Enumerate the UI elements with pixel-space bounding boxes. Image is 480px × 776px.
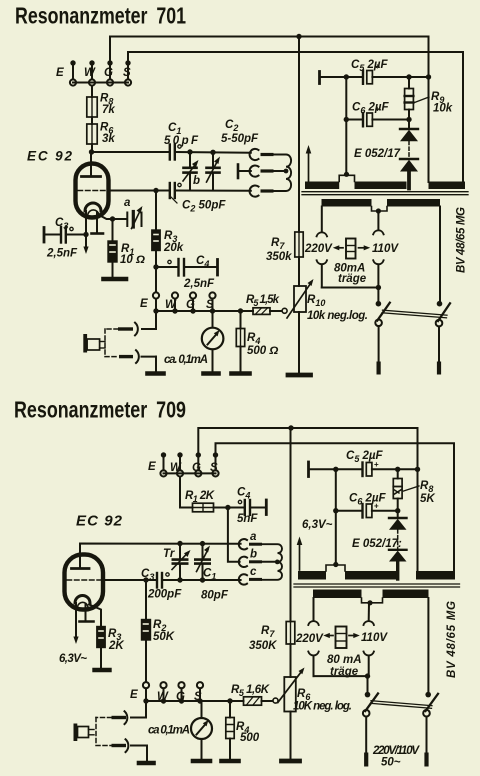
wire G to supply 709 (198, 428, 417, 453)
ground meter (204, 371, 219, 376)
headphone jack 709 (96, 701, 147, 761)
svg-text:50~: 50~ (381, 757, 401, 769)
resistor R4 (236, 311, 278, 371)
wire C5 to C6 (345, 77, 347, 174)
svg-text:Tr: Tr (163, 548, 175, 560)
wiper contact R10 (282, 308, 287, 313)
svg-text:G: G (104, 67, 113, 79)
node Tr bottom (177, 577, 182, 582)
coil winding (274, 155, 292, 192)
wire S to transformer (128, 52, 463, 182)
svg-text:G: G (192, 462, 201, 474)
tube cathode 709 (75, 596, 90, 604)
node R8 top (395, 467, 400, 472)
wire C5 to C6 709 (335, 469, 337, 564)
svg-text:W: W (84, 67, 96, 79)
wire output bus 709 (146, 700, 244, 702)
svg-text:E: E (130, 689, 138, 701)
input bar C5 709 (307, 462, 310, 477)
svg-text:80 mA: 80 mA (327, 654, 362, 666)
svg-text:2,5nF: 2,5nF (183, 278, 215, 290)
svg-text:E: E (140, 298, 148, 310)
svg-text:6,3V~: 6,3V~ (302, 519, 333, 531)
diode D1 E052/17 (400, 120, 418, 159)
wire selector common 709 (314, 675, 368, 677)
svg-text:a: a (250, 531, 257, 543)
capacitor C5 709 (346, 450, 418, 476)
node rectifier 709 (395, 508, 400, 513)
node B+ rail top 709 (288, 425, 293, 430)
wire C3 node to R2 (145, 580, 147, 620)
wire R8-R6 (91, 117, 93, 124)
output terminal G 709 (178, 682, 184, 688)
svg-text:C6 2µF: C6 2µF (352, 102, 390, 116)
resistor R7 709 (249, 622, 295, 653)
output terminal W 709 (160, 682, 166, 688)
output terminal G (190, 292, 196, 298)
svg-text:BV 48/65 MG: BV 48/65 MG (456, 207, 468, 273)
svg-text:5-50pF: 5-50pF (221, 133, 259, 145)
tube anode lead (90, 152, 92, 177)
svg-text:220V: 220V (304, 243, 333, 255)
resistor R5 (246, 294, 282, 314)
mains switch 701 (375, 301, 450, 375)
fuse 80mA (333, 239, 370, 286)
wire W to R8 (91, 86, 93, 97)
terminal G (input row) (104, 60, 113, 85)
transformer T2 primary (313, 590, 429, 606)
svg-text:5nF: 5nF (237, 513, 258, 525)
capacitor C3 (44, 217, 86, 260)
resistor R3 709 (97, 627, 125, 653)
wire cathode mid lead (85, 604, 87, 622)
resistor R2 (142, 619, 175, 643)
svg-text:G: G (186, 299, 195, 311)
terminal E (709 input) (148, 452, 167, 476)
meter M1 (164, 311, 223, 371)
svg-text:500 Ω: 500 Ω (247, 345, 278, 357)
terminal W (709 input) (170, 452, 183, 476)
wire grid coupling to coil b (228, 508, 240, 562)
svg-text:10 Ω: 10 Ω (120, 254, 145, 266)
output terminal E 709 (143, 682, 149, 688)
tube anode plate (82, 175, 101, 178)
svg-text:R5 1,5k: R5 1,5k (246, 294, 280, 308)
node grid/R3 (153, 188, 158, 193)
node C6 left (344, 117, 349, 122)
node C4 (153, 264, 158, 269)
terminal E (input row) (56, 60, 76, 85)
svg-text:200pF: 200pF (147, 589, 182, 601)
transformer T1 secondary (305, 172, 465, 189)
svg-text:2,5nF: 2,5nF (46, 248, 78, 260)
wire anode row (92, 151, 169, 153)
wire G drop to C5 row (428, 37, 430, 183)
resistor R6 (87, 122, 116, 146)
headphone jack 701 (105, 311, 156, 371)
wire R7 to R10 (298, 257, 300, 286)
resistor R8 (87, 93, 116, 118)
terminal S (709 input) (210, 452, 219, 476)
svg-text:20k: 20k (163, 242, 184, 254)
svg-text:b: b (250, 549, 257, 561)
capacitor C1 (164, 122, 199, 160)
wire R1 to C4 node (214, 507, 244, 509)
transformer core (302, 191, 468, 193)
coil 709 sockets a b c (239, 531, 257, 585)
coil screen electrode (237, 165, 240, 179)
ground R3 709 (95, 668, 110, 672)
node C1 (200, 541, 205, 546)
tube grid 709 (dashed) (67, 579, 101, 581)
svg-text:6,3V~: 6,3V~ (59, 653, 87, 665)
svg-text:2K: 2K (108, 640, 124, 652)
svg-text:E: E (56, 67, 64, 79)
node B+ rail top (296, 34, 301, 39)
coil plug pins (261, 153, 274, 156)
node R4 (238, 308, 243, 313)
node cathode/R1 (110, 216, 115, 221)
ground rail 709 (282, 759, 300, 764)
output terminal W (172, 292, 178, 298)
coil L1 sockets (250, 149, 259, 197)
svg-text:träge: träge (338, 273, 367, 285)
node C5/C6 709 (333, 467, 338, 472)
svg-text:W: W (170, 462, 182, 474)
capacitor C4 (156, 255, 218, 290)
ground rail (288, 373, 311, 378)
output terminal E (153, 292, 159, 298)
svg-text:S: S (210, 462, 218, 474)
fuse 80mA 709 (323, 627, 361, 679)
variable capacitor C2 5-50pF (207, 119, 260, 191)
output terminal S 709 (197, 682, 203, 688)
svg-text:7k: 7k (102, 104, 115, 116)
ground R4 (232, 371, 250, 376)
coil 709 winding (262, 544, 282, 580)
ground R4 709 (222, 759, 239, 764)
wire output bus (156, 310, 253, 312)
svg-text:350k: 350k (266, 251, 292, 263)
wire R2 to E row (145, 640, 147, 682)
wire R6 to anode node (91, 144, 93, 152)
svg-text:EC 92: EC 92 (76, 513, 123, 530)
svg-text:BV 48/65 MG: BV 48/65 MG (446, 601, 458, 678)
svg-text:E: E (148, 461, 156, 473)
node R4 709 (227, 698, 232, 703)
svg-text:350K: 350K (249, 640, 277, 652)
transformer T1 primary (322, 199, 441, 214)
svg-text:220V/110V: 220V/110V (372, 745, 420, 757)
transformer T2 secondary (298, 562, 455, 580)
B+ rail 701 (298, 37, 300, 233)
wire R3 (155, 191, 157, 231)
wire cathode to R3 (89, 605, 101, 627)
diode D4 E052/17 (352, 538, 407, 579)
svg-text:W: W (165, 299, 177, 311)
resistor R1 (185, 490, 215, 512)
capacitor C6 709 (336, 493, 398, 518)
svg-text:b: b (193, 175, 200, 187)
B+ rail 709 (290, 428, 292, 622)
resistor R9 (405, 77, 453, 120)
resistor R1 (108, 241, 145, 266)
ground jack (148, 371, 164, 376)
ground meter 709 (193, 759, 210, 764)
svg-text:500: 500 (240, 732, 260, 744)
svg-text:E 052/17:: E 052/17: (352, 538, 402, 550)
node anode (89, 149, 94, 154)
node grid coupling (225, 505, 230, 510)
wire cathode left lead (85, 211, 87, 235)
svg-text:50K: 50K (153, 631, 175, 643)
svg-text:Resonanzmeter 701: Resonanzmeter 701 (15, 3, 186, 29)
transformer core 709 (294, 583, 460, 585)
tube V2 envelope (65, 555, 104, 610)
svg-text:10k neg.log.: 10k neg.log. (307, 310, 368, 322)
capacitor C5 (351, 59, 429, 84)
node C5/C6 (344, 74, 349, 79)
wire R3 to C4 node (155, 251, 157, 268)
node b top (187, 149, 192, 154)
svg-text:EC 92: EC 92 (27, 149, 72, 164)
capacitor C6 (346, 102, 409, 127)
wire cathode to R1 node (100, 216, 113, 220)
tube V1 envelope (76, 164, 109, 218)
svg-text:3k: 3k (102, 133, 115, 145)
resistor R5 709 (231, 684, 273, 705)
svg-text:5K: 5K (420, 493, 435, 505)
potentiometer R6 (278, 668, 352, 713)
wire coil tap b (262, 561, 278, 563)
wire grid row (108, 190, 169, 192)
svg-text:ca. 0,1mA: ca. 0,1mA (164, 354, 208, 366)
speaker symbol 701 (83, 334, 105, 353)
tube cathode (85, 203, 101, 211)
capacitor C4 709 (237, 487, 266, 526)
node rectifier (406, 117, 411, 122)
wire R1 to ground (112, 262, 114, 277)
node C6 left 709 (333, 508, 338, 513)
110V tap 709 (361, 603, 388, 676)
potentiometer R10 (287, 279, 368, 322)
220V tap (304, 207, 333, 288)
svg-text:a: a (124, 197, 131, 209)
svg-text:Resonanzmeter 709: Resonanzmeter 709 (14, 397, 186, 423)
tube anode plate 709 (72, 567, 90, 570)
wire node to R1 (112, 219, 114, 241)
svg-text:10k: 10k (433, 103, 453, 115)
wire G to supply (110, 37, 428, 62)
wire anode row 709 (80, 544, 241, 558)
node C3/R2 (143, 577, 148, 582)
svg-text:10K neg. log.: 10K neg. log. (293, 701, 352, 713)
svg-text:110V: 110V (361, 632, 388, 644)
terminal G (709 input) (192, 452, 201, 476)
wire R10 to ground (298, 312, 300, 373)
capacitor C2 50pF (170, 183, 227, 214)
tube grid (dashed) (78, 190, 107, 192)
svg-text:C5 2µF: C5 2µF (351, 59, 389, 73)
resistor R8 (393, 469, 435, 510)
terminal W (input row) (84, 60, 96, 85)
wire S to transformer 709 (216, 443, 455, 572)
wire to output row E (155, 267, 157, 292)
resistor R3 (152, 230, 184, 254)
heater end bar (92, 232, 104, 235)
node R9 top (406, 74, 411, 79)
wire primary right 709 (427, 598, 429, 692)
wire terminal bus (73, 82, 128, 84)
input bar C5 (318, 72, 321, 84)
svg-text:80pF: 80pF (201, 590, 229, 602)
svg-text:R5 1,6K: R5 1,6K (231, 684, 270, 698)
svg-text:S: S (206, 299, 214, 311)
node cathode/C3 (83, 232, 88, 237)
svg-text:c: c (250, 566, 257, 578)
wire primary right (439, 207, 441, 301)
svg-text:220V: 220V (295, 633, 324, 645)
diode D3 E052/17 (389, 511, 407, 550)
resistor R4 709 (226, 701, 260, 759)
svg-text:ca 0,1mA: ca 0,1mA (148, 725, 190, 737)
trimmer a (113, 197, 143, 229)
wire heater arrow (85, 235, 87, 250)
svg-text:50pF: 50pF (164, 135, 199, 147)
wire C2 to coil (176, 190, 251, 192)
svg-text:C2 50pF: C2 50pF (182, 200, 226, 214)
resistor R7 (266, 232, 303, 263)
output terminal S (209, 292, 215, 298)
wire coil tap (274, 170, 287, 172)
wire selector common (322, 287, 379, 289)
wiper contact R6 (273, 698, 278, 703)
svg-text:C6 2µF: C6 2µF (349, 493, 387, 507)
terminal S (input row) (123, 60, 131, 85)
capacitor C3 709 (103, 568, 241, 601)
heater arrow (306, 145, 312, 181)
meter M2 (148, 701, 212, 759)
node C2trim top (210, 150, 215, 155)
wire 709 input bus (164, 472, 216, 474)
110V tap (372, 211, 399, 288)
wire heater lead down (75, 603, 77, 639)
wire heater lead (96, 212, 98, 234)
ground jack 709 (139, 761, 154, 766)
heater arrow 709 (297, 537, 303, 571)
variable capacitor C1 709 (195, 544, 229, 602)
diode D2 E052/17 (354, 148, 418, 189)
svg-text:E 052/17: E 052/17 (354, 148, 401, 160)
tube anode lead 709 (79, 557, 81, 569)
wire W to R1 (180, 477, 193, 508)
ground bar R1 (104, 277, 127, 282)
node Tr (177, 541, 182, 546)
speaker symbol 709 (74, 724, 95, 742)
220V tap 709 (295, 598, 324, 676)
node C1 bottom (200, 577, 205, 582)
svg-text:R1 2K: R1 2K (185, 490, 215, 504)
trimmer Tr (163, 544, 191, 581)
svg-text:110V: 110V (372, 243, 399, 255)
svg-text:S: S (123, 67, 131, 79)
mains switch 709 (363, 692, 438, 769)
variable capacitor b (183, 152, 200, 191)
svg-text:C5 2µF: C5 2µF (346, 450, 384, 464)
wire C1 to coil (176, 151, 251, 154)
coil 709 pins (249, 543, 262, 546)
